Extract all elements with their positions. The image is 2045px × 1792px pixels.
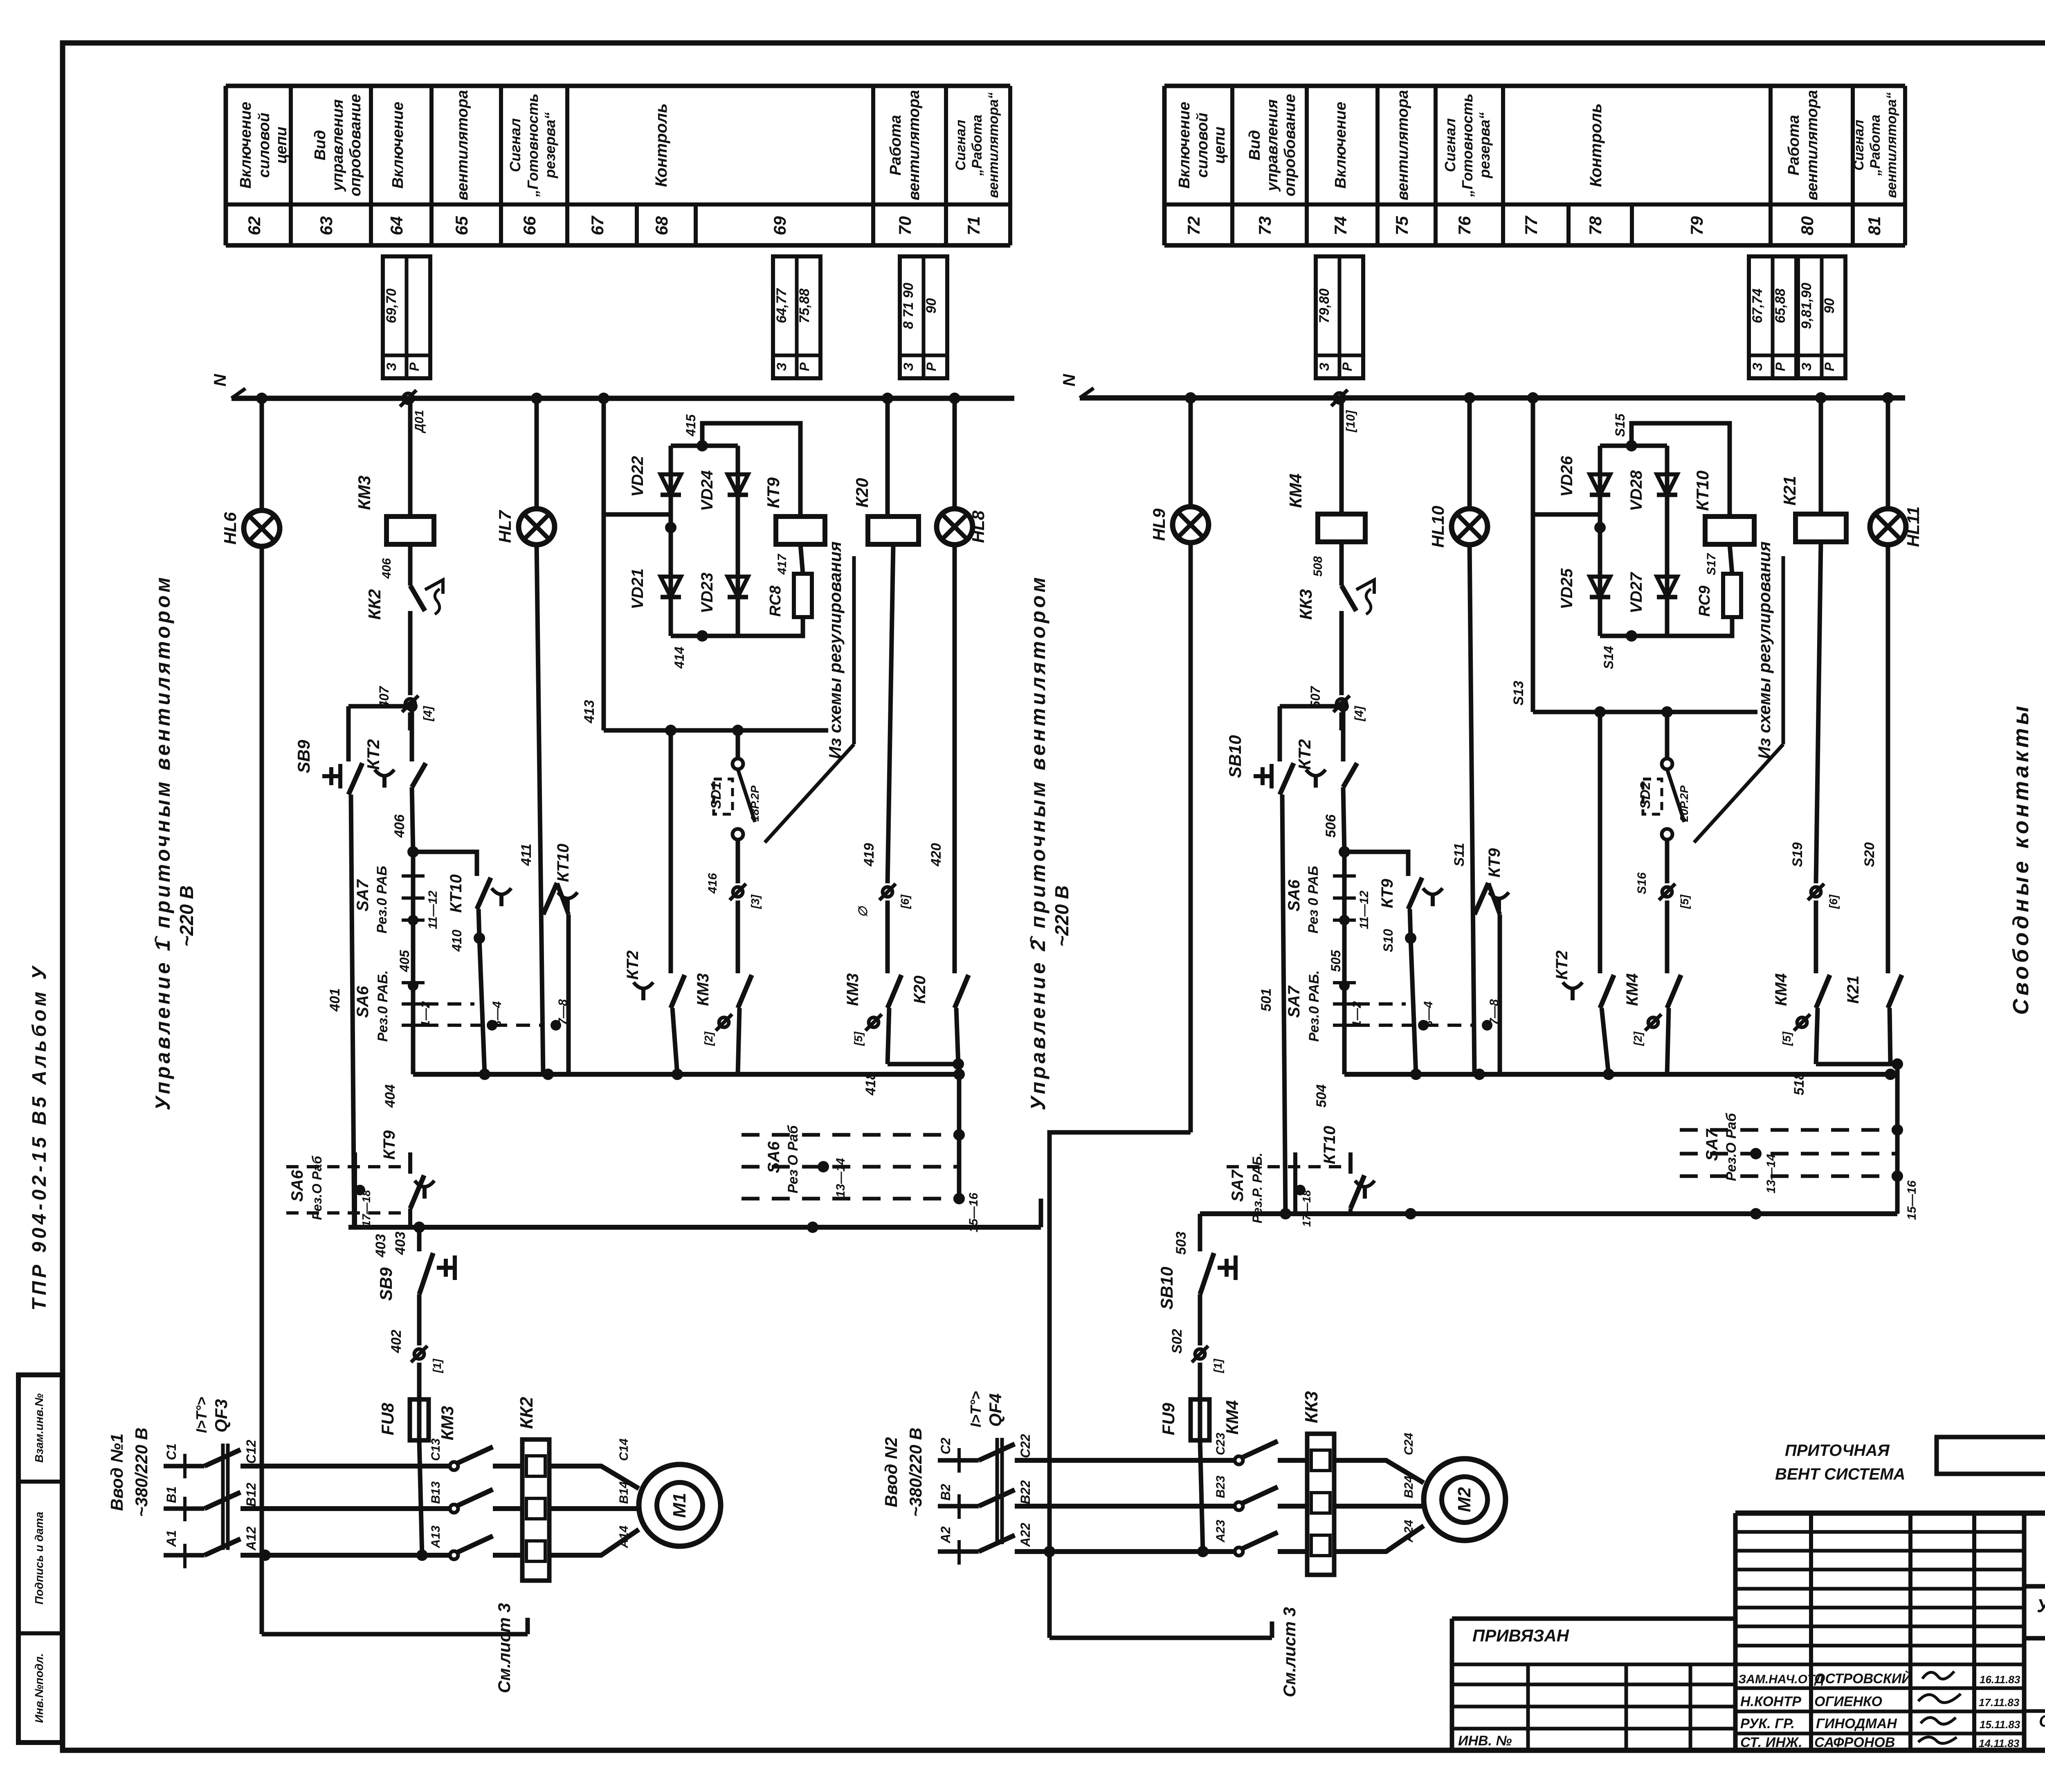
- svg-text:HL10: HL10: [1428, 506, 1447, 548]
- svg-text:Р: Р: [924, 362, 939, 371]
- svg-text:резерва“: резерва“: [542, 112, 558, 178]
- svg-text:КК2: КК2: [517, 1397, 537, 1429]
- breaker QF4: [967, 1391, 1015, 1552]
- svg-text:418: 418: [863, 1072, 879, 1096]
- wire mark 402 [1]: [411, 1346, 443, 1373]
- svg-text:63: 63: [317, 216, 336, 236]
- svg-text:79: 79: [1687, 216, 1706, 235]
- svg-text:HL11: HL11: [1903, 506, 1923, 547]
- ref box circuit2 col81 (З 9,81,90 / Р 90): [1798, 256, 1845, 378]
- diode bridge left leg c2: [1598, 446, 1602, 636]
- svg-text:В12: В12: [244, 1482, 258, 1507]
- svg-text:N: N: [1059, 373, 1079, 386]
- node 404 bus: [382, 1069, 965, 1108]
- svg-text:SA6: SA6: [765, 1141, 783, 1173]
- svg-text:406: 406: [380, 558, 393, 579]
- svg-text:КТ10: КТ10: [447, 874, 465, 913]
- svg-text:А2: А2: [938, 1526, 953, 1543]
- wire HL8 column: [953, 398, 957, 510]
- input stubs A2 B2 C2: [938, 1437, 979, 1565]
- diode VD28: [1627, 470, 1677, 511]
- svg-text:КТ2: КТ2: [1295, 739, 1314, 770]
- motor M1: [639, 1464, 721, 1546]
- wire to node 406: [412, 787, 413, 852]
- diode bridge right leg: [736, 446, 740, 636]
- svg-text:77: 77: [1521, 216, 1541, 235]
- input stubs A1 B1 C1: [164, 1444, 204, 1568]
- svg-text:419: 419: [861, 843, 877, 867]
- svg-text:403: 403: [373, 1234, 389, 1258]
- svg-text:13―14: 13―14: [834, 1158, 847, 1197]
- bus break mark circuit 2: [1331, 390, 1357, 433]
- wire KT2 branch c2: [1598, 712, 1602, 973]
- svg-text:SA6: SA6: [354, 986, 372, 1018]
- wire 501 down: [1258, 795, 1285, 1214]
- stadia header line: [2024, 1638, 2045, 1750]
- svg-text:Включение: Включение: [1176, 102, 1193, 189]
- object title line1: [2037, 1595, 2045, 1616]
- wire KM4 to KK3: [1339, 542, 1344, 586]
- jog node406 to KT10: [413, 852, 477, 876]
- diode VD22: [629, 456, 681, 497]
- lamp HL6: [220, 510, 280, 546]
- svg-text:VD27: VD27: [1627, 572, 1645, 613]
- pushbutton SB10: [1225, 735, 1294, 795]
- svg-text:„Работа: „Работа: [1867, 115, 1883, 176]
- relay coil K20: [852, 478, 919, 544]
- svg-text:Работа: Работа: [1785, 115, 1802, 175]
- label Sm.list 3 circuit2: [1280, 1607, 1299, 1698]
- svg-text:81: 81: [1865, 216, 1884, 236]
- svg-text:Управление 2᷆ приточным вент: Управление 2᷆ приточным вентилятором: [1027, 575, 1049, 1110]
- switch SA6 dashes c1: [354, 950, 544, 1042]
- svg-text:вентилятора: вентилятора: [1394, 90, 1411, 200]
- svg-text:VD21: VD21: [629, 568, 647, 609]
- svg-text:Сигнал: Сигнал: [953, 120, 969, 171]
- wire to sm.list3 circuit1: [262, 1618, 528, 1634]
- node 413 bus: [582, 700, 828, 736]
- svg-text:71: 71: [964, 216, 983, 236]
- wire KK3 to node 507: [1339, 611, 1344, 730]
- svg-text:УПРАВЛЕНИЕ И СИЛОВОЕ ЭЛЕКТРО: УПРАВЛЕНИЕ И СИЛОВОЕ ЭЛЕКТРООБОРУДОВАНИЕ: [2037, 1595, 2045, 1616]
- contact KM4 aux2 c2: [1772, 973, 1830, 1046]
- svg-text:С12: С12: [244, 1439, 258, 1464]
- wire to node 518a: [1791, 1008, 1897, 1095]
- switch SA7/KT10 branch c2: [1227, 1152, 1349, 1227]
- svg-text:Р: Р: [1773, 362, 1788, 371]
- svg-text:ПРИТОЧНАЯ: ПРИТОЧНАЯ: [1785, 1442, 1890, 1460]
- svg-text:К21: К21: [1780, 476, 1799, 506]
- svg-text:S14: S14: [1601, 646, 1616, 669]
- svg-text:ОСТРОВСКИЙ: ОСТРОВСКИЙ: [1814, 1671, 1912, 1686]
- svg-text:413: 413: [582, 700, 597, 724]
- breaker QF3: [193, 1397, 240, 1555]
- wire HL10 column: [1470, 398, 1474, 1074]
- svg-text:SB10: SB10: [1157, 1267, 1176, 1309]
- wire KT2 to 404: [672, 1008, 677, 1074]
- wire RC9 to node S14: [1667, 617, 1732, 636]
- svg-text:I>Т°>: I>Т°>: [193, 1397, 210, 1433]
- svg-text:Рез.О Раб: Рез.О Раб: [310, 1155, 324, 1220]
- svg-text:[5]: [5]: [1780, 1031, 1793, 1046]
- branch SB9 (wire 401): [346, 706, 351, 761]
- svg-text:С22: С22: [1018, 1434, 1033, 1458]
- wire 402: [389, 1294, 419, 1399]
- svg-text:504: 504: [1314, 1085, 1329, 1108]
- timer contact KT9 c2a: [1378, 878, 1443, 952]
- svg-text:~220 В: ~220 В: [1051, 885, 1072, 947]
- svg-text:КМ3: КМ3: [844, 973, 862, 1006]
- svg-text:HL8: HL8: [969, 510, 988, 543]
- svg-text:SD2: SD2: [1638, 782, 1653, 809]
- svg-text:411: 411: [519, 844, 534, 866]
- branch KT2 upper: [410, 706, 414, 761]
- label Vvod No1: [107, 1428, 151, 1517]
- svg-text:См.лист 3: См.лист 3: [1280, 1607, 1299, 1698]
- svg-text:VD23: VD23: [698, 573, 716, 613]
- wire RC8 to node 414: [738, 617, 803, 636]
- svg-text:А12: А12: [244, 1526, 258, 1551]
- svg-text:КМ4: КМ4: [1772, 973, 1790, 1006]
- privyazan strip: [1452, 1619, 1735, 1750]
- svg-text:Взам.инв.№: Взам.инв.№: [33, 1393, 45, 1462]
- wire HL7 column: [537, 398, 543, 1074]
- svg-text:вентилятора: вентилятора: [454, 90, 471, 200]
- svg-text:3―4: 3―4: [490, 1001, 504, 1027]
- stamp label Inv.No podl.: [33, 1653, 45, 1723]
- label 411: [519, 844, 534, 866]
- svg-text:[10]: [10]: [1344, 410, 1357, 432]
- phase line C13 B13 A13: [429, 1438, 522, 1555]
- contact K20 aux c1: [911, 975, 969, 1008]
- svg-text:Р: Р: [797, 362, 812, 371]
- wire mark 416 [3]: [706, 873, 762, 909]
- svg-text:SB9: SB9: [294, 740, 313, 773]
- timer contact KT10 c1b: [543, 844, 578, 1074]
- wire 415 to KT9 coil: [702, 423, 800, 516]
- svg-text:S11: S11: [1452, 843, 1467, 867]
- timer contact KT10 c1a: [447, 874, 511, 952]
- wire S17 KT10 to RC9: [1705, 544, 1732, 575]
- wire S20 down: [1862, 544, 1888, 973]
- svg-text:17.11.83: 17.11.83: [1979, 1696, 2020, 1709]
- plug contact S02: [1638, 759, 1690, 840]
- svg-text:11―12: 11―12: [426, 890, 440, 929]
- svg-text:72: 72: [1184, 216, 1203, 236]
- svg-text:403: 403: [393, 1232, 408, 1255]
- svg-text:Вид: Вид: [312, 130, 329, 160]
- svg-text:69,70: 69,70: [384, 288, 399, 323]
- svg-text:HL6: HL6: [220, 512, 240, 545]
- svg-text:76: 76: [1455, 216, 1474, 235]
- svg-text:~220 В: ~220 В: [176, 885, 197, 947]
- svg-text:78: 78: [1586, 216, 1605, 235]
- switch SA7 group c2 right: [1680, 1064, 1919, 1220]
- contactor KM3 main contacts: [438, 1406, 493, 1559]
- svg-text:силовой: силовой: [1194, 112, 1211, 177]
- svg-text:КТ10: КТ10: [1321, 1126, 1339, 1164]
- svg-text:7―8: 7―8: [556, 999, 570, 1025]
- svg-text:КМ4: КМ4: [1286, 474, 1305, 508]
- N bus circuit 2: [1059, 373, 1905, 398]
- svg-text:КМ4: КМ4: [1223, 1400, 1242, 1435]
- svg-text:[5]: [5]: [852, 1031, 865, 1046]
- wire K20 column: [885, 398, 890, 516]
- svg-text:14.11.83: 14.11.83: [1979, 1737, 2020, 1749]
- svg-text:В1: В1: [164, 1487, 179, 1503]
- svg-text:17―18: 17―18: [1300, 1190, 1313, 1227]
- svg-text:S19: S19: [1790, 842, 1805, 867]
- timer contact KT2 c1: [364, 739, 426, 788]
- svg-text:Ввод N2: Ввод N2: [881, 1437, 901, 1507]
- section title circuit 2: [1027, 575, 1072, 1110]
- svg-text:ВЕНТ СИСТЕМА: ВЕНТ СИСТЕМА: [1775, 1465, 1905, 1483]
- contactor coil KM3: [355, 476, 434, 579]
- diode VD26: [1558, 456, 1610, 497]
- svg-text:[3]: [3]: [749, 894, 762, 909]
- wire HL11 column: [1886, 398, 1890, 510]
- wire K21 aux down: [1890, 1008, 1903, 1070]
- wire 503 right riser: [1895, 1201, 1900, 1214]
- bridge top tie node 415: [671, 414, 738, 451]
- svg-text:З: З: [901, 363, 916, 371]
- resistor RC9: [1696, 574, 1741, 617]
- svg-text:Сигнал: Сигнал: [1851, 120, 1867, 171]
- svg-text:З: З: [1750, 363, 1765, 371]
- svg-text:SB10: SB10: [1225, 735, 1245, 778]
- wire HL9 to feeder: [1044, 1132, 1191, 1638]
- diode VD23: [698, 573, 748, 613]
- diode VD21: [629, 568, 681, 609]
- node 503 bus: [1200, 1208, 1897, 1219]
- wire below 503: [1173, 1214, 1200, 1255]
- svg-text:64,77: 64,77: [774, 287, 789, 323]
- svg-text:В24: В24: [1402, 1475, 1416, 1498]
- svg-text:В2: В2: [938, 1484, 953, 1500]
- svg-text:САФРОНОВ: САФРОНОВ: [1814, 1735, 1895, 1750]
- relay coil K21: [1780, 476, 1846, 542]
- svg-text:VD28: VD28: [1627, 470, 1645, 511]
- stamp label Podpis i data: [33, 1512, 45, 1605]
- svg-text:З: З: [1799, 363, 1814, 371]
- svg-text:Р: Р: [1340, 362, 1355, 371]
- svg-text:вентилятора“: вентилятора“: [1884, 92, 1899, 198]
- svg-text:КТ2: КТ2: [364, 739, 383, 770]
- svg-text:90: 90: [924, 298, 939, 314]
- svg-text:16.11.83: 16.11.83: [1980, 1673, 2020, 1686]
- svg-text:SA6: SA6: [1285, 879, 1303, 912]
- contact KM3 aux2 c1: [844, 973, 901, 1046]
- svg-text:RC9: RC9: [1696, 586, 1713, 617]
- phase line A12: [240, 1526, 451, 1561]
- svg-text:Рез.Р. РАБ.: Рез.Р. РАБ.: [1250, 1152, 1265, 1223]
- node 504 bus: [1314, 1069, 1896, 1107]
- svg-text:З: З: [1317, 363, 1332, 371]
- svg-text:Рез.0 РАБ.: Рез.0 РАБ.: [1306, 970, 1322, 1042]
- svg-text:410: 410: [449, 930, 464, 952]
- wire S02b: [1169, 1294, 1200, 1399]
- svg-text:С14: С14: [617, 1438, 631, 1461]
- fuse FU8: [378, 1399, 429, 1440]
- svg-text:~380/220 В: ~380/220 В: [132, 1428, 151, 1517]
- svg-text:Рез.О Раб: Рез.О Раб: [1724, 1113, 1739, 1181]
- svg-text:S15: S15: [1613, 413, 1627, 437]
- contactor KM4 main contacts: [1223, 1400, 1278, 1556]
- iz shemy regulirovaniya label c2: [1694, 541, 1783, 842]
- svg-text:67: 67: [588, 216, 607, 235]
- header table circuit 1 (cols 62-71): [226, 86, 1010, 245]
- svg-text:СХЕМА ЭЛЕКТРИЧЕСКАЯ: СХЕМА ЭЛЕКТРИЧЕСКАЯ: [2039, 1712, 2045, 1730]
- wire K20 aux down: [953, 1008, 964, 1070]
- svg-text:А13: А13: [429, 1525, 443, 1548]
- svg-text:505: 505: [1328, 950, 1343, 972]
- wire KK2 to node 407: [408, 611, 413, 730]
- svg-text:„Готовность: „Готовность: [1459, 94, 1476, 198]
- timer contact KT9 aux c1: [380, 1130, 434, 1227]
- svg-text:15.11.83: 15.11.83: [1980, 1718, 2020, 1731]
- svg-text:резерва“: резерва“: [1476, 112, 1493, 178]
- svg-text:S02: S02: [1169, 1329, 1185, 1354]
- svg-text:вентилятора“: вентилятора“: [986, 92, 1001, 198]
- resistor RC8: [767, 574, 812, 617]
- svg-text:508: 508: [1311, 556, 1325, 577]
- sig row st.inzh.: [1740, 1735, 2020, 1750]
- phase line C22: [1015, 1434, 1236, 1460]
- svg-text:QF4: QF4: [986, 1393, 1005, 1427]
- svg-text:РУК. ГР.: РУК. ГР.: [1740, 1716, 1795, 1731]
- svg-text:S10: S10: [1381, 929, 1396, 952]
- sig row zam.nach.otd: [1738, 1671, 2020, 1686]
- ref box circuit2 col74 (З 79,80 / Р): [1316, 256, 1363, 378]
- timer contact KT10 aux c2: [1321, 1126, 1375, 1214]
- svg-text:65,88: 65,88: [1773, 288, 1788, 323]
- vent system empty box: [1937, 1437, 2045, 1474]
- lamp HL8: [937, 509, 988, 545]
- contact KM3 aux c1: [694, 973, 752, 1046]
- svg-text:управления: управления: [1264, 99, 1281, 192]
- album designation TPR 904-02-15 V5 Album U: [29, 963, 50, 1310]
- svg-text:68: 68: [652, 216, 671, 235]
- svg-text:КТ2: КТ2: [1553, 950, 1571, 980]
- svg-text:90: 90: [1822, 298, 1837, 314]
- ref box circuit2 col79 (З 67,74 / Р 65,88): [1749, 256, 1796, 378]
- thermal relay KK3 heaters: [1301, 1391, 1334, 1575]
- svg-text:11―12: 11―12: [1357, 890, 1371, 929]
- svg-text:Р: Р: [1822, 362, 1837, 371]
- jog node506 to KT9: [1344, 852, 1408, 876]
- lamp HL7: [495, 509, 555, 545]
- svg-text:[6]: [6]: [899, 894, 911, 909]
- bridge bottom tie node 414: [671, 630, 738, 669]
- svg-text:З: З: [774, 363, 789, 371]
- svg-text:опробование: опробование: [347, 94, 364, 196]
- feeder wire x3748: [1531, 398, 1535, 712]
- svg-text:В22: В22: [1018, 1480, 1033, 1504]
- svg-text:S17: S17: [1705, 553, 1718, 575]
- svg-text:80: 80: [1798, 216, 1817, 236]
- svg-text:HL7: HL7: [495, 510, 515, 543]
- svg-text:КМ4: КМ4: [1623, 973, 1641, 1006]
- svg-text:Рез 0 РАБ: Рез 0 РАБ: [1306, 866, 1321, 933]
- svg-text:КМ3: КМ3: [438, 1406, 457, 1440]
- node 403 bus: [348, 1222, 1041, 1258]
- switch SA6 dashes c2: [1285, 852, 1371, 1074]
- svg-text:„Работа: „Работа: [969, 115, 985, 176]
- node 513 bus: [1511, 681, 1757, 718]
- lamp HL10: [1428, 506, 1488, 548]
- node 506: [1323, 814, 1350, 858]
- svg-text:КК3: КК3: [1301, 1391, 1321, 1424]
- wire mark 419 [6]: [856, 884, 911, 917]
- svg-text:503: 503: [1173, 1232, 1189, 1255]
- svg-text:В23: В23: [1214, 1475, 1227, 1498]
- wire 410 down: [474, 909, 504, 1074]
- svg-text:А1: А1: [164, 1530, 179, 1547]
- stamp label Vzam.inv.No: [33, 1393, 45, 1462]
- node 406: [392, 814, 419, 858]
- svg-text:VD22: VD22: [629, 456, 647, 497]
- svg-text:[2]: [2]: [702, 1031, 715, 1046]
- svg-text:КК2: КК2: [365, 589, 384, 620]
- svg-text:Из схемы регулирования: Из схемы регулирования: [1755, 541, 1774, 759]
- svg-text:КТ9: КТ9: [764, 477, 783, 508]
- svg-text:N: N: [210, 373, 229, 386]
- svg-text:Ввод №1: Ввод №1: [107, 1433, 126, 1511]
- svg-text:В13: В13: [429, 1481, 443, 1504]
- svg-text:М1: М1: [670, 1493, 690, 1518]
- svg-text:[6]: [6]: [1827, 894, 1840, 909]
- diode VD27: [1627, 572, 1677, 613]
- svg-text:[4]: [4]: [421, 706, 435, 722]
- bus junction dots circuit 1: [256, 393, 960, 404]
- svg-text:„Готовность: „Готовность: [524, 94, 541, 198]
- svg-text:66: 66: [520, 216, 539, 235]
- wire mark S02 [1]: [1192, 1346, 1224, 1373]
- feeder wire x1476: [602, 398, 606, 730]
- wire to node 418: [863, 1008, 958, 1096]
- svg-text:417: 417: [775, 554, 789, 575]
- svg-text:См.лист 3: См.лист 3: [494, 1603, 514, 1693]
- bridge top tie node S15: [1600, 413, 1667, 451]
- svg-text:VD24: VD24: [698, 470, 716, 511]
- wire K21 column: [1819, 398, 1823, 516]
- diode bridge right leg c2: [1665, 446, 1670, 636]
- svg-text:62: 62: [245, 216, 264, 236]
- left stamp column box: [18, 1375, 62, 1743]
- svg-text:КТ2: КТ2: [624, 950, 642, 980]
- lamp HL11: [1870, 506, 1923, 547]
- svg-text:ГИНОДМАН: ГИНОДМАН: [1816, 1716, 1897, 1731]
- svg-text:SA7: SA7: [1285, 985, 1303, 1018]
- svg-text:[1]: [1]: [1211, 1358, 1224, 1373]
- svg-text:КТ9: КТ9: [1378, 878, 1396, 908]
- svg-text:А14: А14: [617, 1525, 631, 1548]
- timer contact KT9 c2b: [1474, 848, 1509, 1074]
- svg-text:Сигнал: Сигнал: [507, 118, 524, 172]
- wire mark S16 [5]: [1635, 872, 1691, 909]
- wire mark 407 [4]: [377, 685, 435, 721]
- svg-text:КТ9: КТ9: [1485, 848, 1503, 878]
- svg-text:75: 75: [1392, 216, 1411, 235]
- svg-text:9,81,90: 9,81,90: [1799, 283, 1814, 329]
- svg-text:404: 404: [382, 1085, 398, 1108]
- wire 420 down: [928, 544, 955, 973]
- fuse FU9: [1159, 1399, 1209, 1440]
- wire FU9 to phase: [1197, 1440, 1209, 1557]
- svg-text:75,88: 75,88: [797, 288, 812, 323]
- svg-text:420: 420: [928, 843, 944, 867]
- label S11: [1452, 843, 1467, 867]
